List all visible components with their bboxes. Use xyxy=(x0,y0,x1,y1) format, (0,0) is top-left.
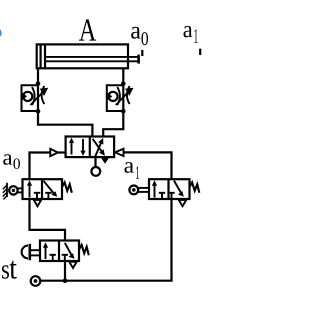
V1 left box down arrow xyxy=(82,139,84,153)
valve st 3/2 push button body xyxy=(40,241,79,262)
V1 right box crossed arrows xyxy=(95,142,101,156)
node left FCV top xyxy=(36,81,41,86)
a0 roller xyxy=(9,186,17,194)
a1 spring xyxy=(190,182,200,192)
cylinder rod xyxy=(45,56,138,58)
st left box blocked port T xyxy=(50,254,56,256)
V1 pilot triangle right xyxy=(115,149,124,156)
label st t xyxy=(10,261,17,279)
st left box flow arrow up xyxy=(45,246,47,260)
st divider xyxy=(58,241,60,262)
flow control valve right (check + throttle) xyxy=(106,84,134,112)
wire left FCV to valve xyxy=(38,111,92,136)
label a1 top 1 xyxy=(194,29,197,43)
wire cylinder left port xyxy=(37,68,39,83)
a0 spring xyxy=(62,182,72,192)
a0 wall with hatching xyxy=(6,183,8,197)
label a0 left a xyxy=(3,154,12,165)
a0 right box blocked port T xyxy=(45,192,51,194)
V1 port P line and source circle xyxy=(94,157,96,167)
cylinder piston xyxy=(39,44,41,68)
a0 divider xyxy=(41,179,43,199)
label a1 mid 1 xyxy=(136,166,139,178)
label st s xyxy=(2,265,9,278)
wire a1 P port down to bus xyxy=(40,199,171,281)
a0 left box blocked port T xyxy=(34,192,40,194)
a1 divider xyxy=(167,179,169,199)
flow control valve left (check + throttle) xyxy=(21,84,49,112)
tick below a1 xyxy=(199,49,201,55)
wire a0 output down to st, st output up xyxy=(30,199,66,241)
wire cylinder right port xyxy=(122,68,124,83)
a1 right box blocked port T xyxy=(168,192,174,194)
node left FCV bottom xyxy=(36,109,41,114)
node st supply junction xyxy=(63,278,68,283)
a0 exhaust triangle xyxy=(34,200,41,206)
cylinder A barrel xyxy=(37,44,128,68)
label a0 left 0 xyxy=(13,158,20,169)
V1 pilot line right to a1 xyxy=(124,152,172,179)
wire right FCV to valve xyxy=(103,111,123,136)
st push button xyxy=(22,246,28,259)
a0 left box flow arrow up xyxy=(29,184,31,198)
label A xyxy=(79,19,96,40)
a0 right box diagonal arrow xyxy=(44,181,54,193)
st exhaust triangle xyxy=(69,262,76,268)
V1 divider xyxy=(89,137,91,158)
label a1 mid a xyxy=(124,162,133,173)
cylinder rod end plate xyxy=(137,55,140,64)
V1 left box up arrow xyxy=(71,141,73,155)
label a0 top 0 xyxy=(142,32,148,45)
node right FCV bottom xyxy=(121,109,126,114)
tick below a0 xyxy=(141,50,143,56)
blue margin dot xyxy=(0,28,2,38)
pressure source circle xyxy=(31,276,41,286)
V1 pilot triangle left xyxy=(50,149,58,156)
valve V1 4/2 main body xyxy=(66,137,115,158)
a1 left box flow arrow up xyxy=(154,184,156,198)
wire st P port xyxy=(64,261,66,281)
valve a1 3/2 roller body xyxy=(149,179,190,199)
V1 exhaust triangle (filled) xyxy=(101,158,109,164)
st right box diagonal arrow xyxy=(65,243,72,255)
label a0 top a xyxy=(131,27,140,39)
label a1 top a xyxy=(184,26,193,38)
valve a0 3/2 roller body xyxy=(23,179,63,199)
st right box blocked port T xyxy=(62,254,68,256)
V1 pilot line left from a0 xyxy=(30,153,51,180)
a1 right box diagonal arrow xyxy=(174,181,181,193)
a1 left box blocked port T xyxy=(159,192,165,194)
a1 exhaust triangle xyxy=(179,200,187,206)
a1 roller xyxy=(129,186,138,195)
node right FCV top xyxy=(121,81,126,86)
st spring xyxy=(79,245,89,255)
